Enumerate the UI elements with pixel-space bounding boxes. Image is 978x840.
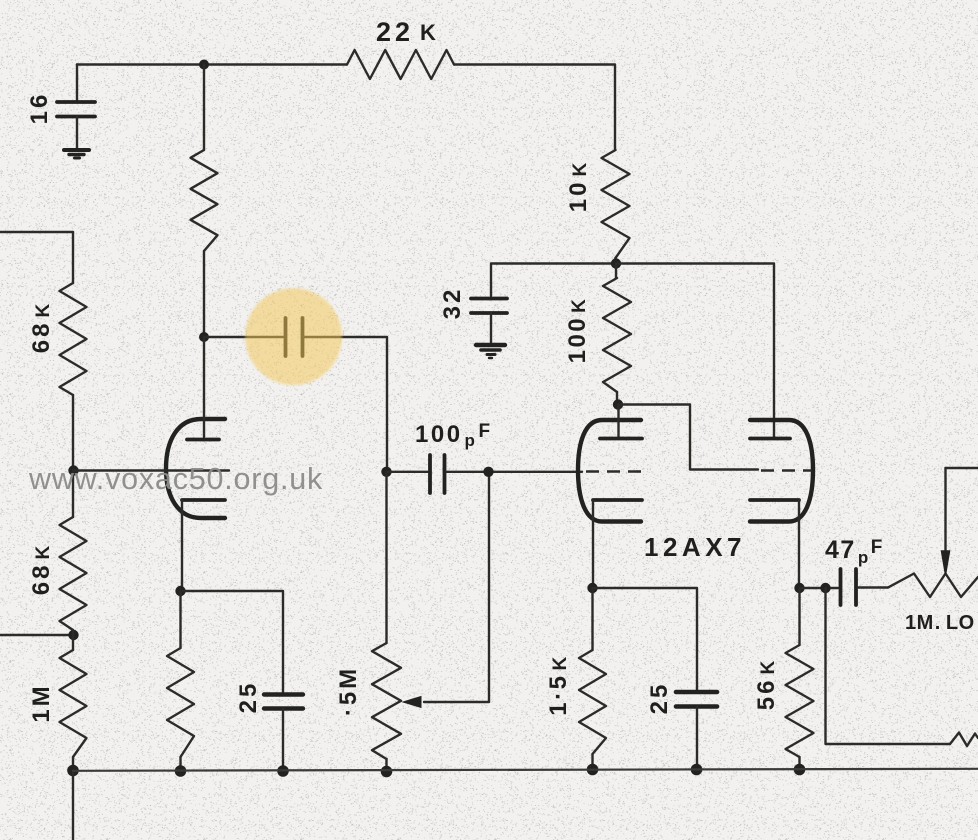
tube U1 left cathode bar (593, 498, 642, 502)
resistor R 68K upper zigzag (60, 283, 87, 395)
resistor R 68K lower lead (72, 470, 74, 517)
tube U1 left cathode lead (592, 500, 594, 588)
capacitor C 25uF left lower lead (282, 709, 284, 772)
node rail dot under .5M (381, 766, 393, 778)
svg-text:25: 25 (235, 681, 262, 714)
node rail dot under 56K (794, 764, 806, 776)
capacitor C 25uF right plates (676, 692, 717, 707)
svg-text:56K: 56K (753, 658, 780, 710)
resistor cathode-1 (unlabelled) lead (179, 591, 181, 648)
node grid-1 junction dot (68, 465, 78, 475)
resistor R 100K lead (615, 264, 617, 279)
resistor R 22K zigzag (347, 50, 454, 79)
wire 22K to HT corner (454, 65, 615, 151)
wire coupling cap to riser (304, 337, 387, 467)
node rail dot under cathode-1 (175, 765, 187, 777)
tube U1 right cathode lead (798, 500, 800, 588)
wire 100pF to V2 grid (446, 471, 582, 473)
svg-text:22K: 22K (376, 17, 440, 47)
resistor R 56K zigzag (786, 645, 814, 757)
wire HT node to right anode drop (616, 264, 774, 438)
ground for 16uF cap (64, 150, 89, 158)
tube U1 12AX7 envelope right half (750, 420, 813, 522)
resistor cathode-1 zigzag (167, 648, 194, 757)
svg-text:16: 16 (26, 92, 53, 125)
capacitor C 47pF plates (841, 569, 857, 605)
node 47pF junction dot (820, 583, 830, 593)
capacitor C 16uF plates (57, 102, 95, 117)
svg-text:32: 32 (439, 287, 466, 320)
resistor R 1.5K lead (591, 588, 593, 650)
ground for 32uF cap (476, 345, 505, 358)
potentiometer .5M wiper arrow (403, 472, 489, 708)
svg-text:www.voxac50.org.uk: www.voxac50.org.uk (28, 462, 323, 496)
capacitor C 16uF lower lead (76, 117, 78, 149)
node ground-rail-left junction dot (67, 765, 79, 777)
wire 47pF node down and right (826, 588, 951, 744)
wire 47pF to 1M pot (858, 586, 888, 588)
wire 1M wiper to right edge (946, 467, 978, 469)
wire node B to coupling cap (204, 336, 283, 338)
capacitor C 32uF plates (471, 299, 507, 314)
wire cross-couple V2 anode to right grid (619, 405, 759, 470)
capacitor C 16uF lead (76, 65, 78, 101)
wire anode-load to node B (203, 251, 205, 337)
svg-text:68K: 68K (28, 543, 55, 595)
highlight circle over coupling cap (245, 288, 342, 385)
svg-text:1·5K: 1·5K (545, 654, 572, 715)
potentiometer 1M LOG zigzag (888, 574, 978, 598)
node cathode-1 junction dot (175, 586, 185, 596)
partial zigzag at lower right edge (950, 733, 978, 747)
tube U1 right grid dashed (761, 469, 812, 472)
wire stub below ground rail (72, 771, 74, 840)
tube U1 right anode bar (750, 437, 790, 441)
resistor R 1M zigzag (60, 650, 87, 757)
resistor R 10K zigzag (602, 150, 630, 258)
capacitor coupling (highlighted) plates (286, 318, 303, 356)
potentiometer 1M wiper arrow (942, 468, 950, 575)
triode V1 cathode lead (181, 500, 183, 591)
wire top rail (77, 63, 347, 65)
wire ground rail (73, 769, 978, 771)
resistor R 100K zigzag (603, 278, 631, 392)
triode V1 anode lead (203, 337, 205, 437)
triode V1 anode bar (187, 438, 219, 442)
wire cathode-2 to bypass cap (593, 588, 698, 690)
capacitor C 25uF left plates (264, 695, 303, 709)
svg-text:10K: 10K (565, 160, 592, 212)
svg-text:100K: 100K (564, 297, 591, 364)
triode V1 grid line (74, 469, 230, 471)
node V2 anode junction dot (613, 399, 623, 409)
node B junction dot (199, 332, 209, 342)
wire 10K to HT node (614, 258, 616, 264)
tube U1 right cathode bar (750, 498, 799, 502)
wire riser to .5M pot (385, 472, 387, 643)
wire cathode-3 to 47pF (800, 587, 839, 589)
node A junction dot top rail (199, 60, 209, 70)
capacitor C 32uF lower lead (490, 313, 492, 343)
node 1M-top junction dot (68, 630, 78, 640)
wire 1.5K to rail (591, 754, 593, 770)
tube U1 left anode bar (600, 437, 642, 441)
wire .5M to rail (385, 759, 387, 772)
node rail dot under 25uF left (277, 765, 289, 777)
wire cathode-1 resistor to rail (179, 757, 181, 771)
triode V1 cathode bar (182, 498, 225, 502)
svg-text:1M.LO: 1M.LO (905, 612, 975, 634)
node riser junction dot (381, 467, 391, 477)
resistor R 1M lead (72, 630, 74, 650)
capacitor C 100pF plates (430, 455, 445, 493)
resistor R 56K lead (798, 588, 800, 645)
potentiometer .5M zigzag (372, 643, 401, 759)
node rail dot under 25uF right (691, 764, 703, 776)
svg-text:25: 25 (646, 682, 673, 715)
node cathode-2 junction dot (587, 583, 597, 593)
node rail dot under 1.5K (587, 764, 599, 776)
resistor R 1.5K zigzag (579, 650, 606, 754)
wire HT node to 32uF cap (491, 264, 614, 297)
node HT junction dot (611, 258, 621, 268)
wire riser to 100pF (387, 471, 429, 473)
wire left edge to 1M node (0, 634, 73, 636)
svg-text:68K: 68K (28, 301, 55, 353)
wire from left edge to 68K (0, 232, 73, 283)
wire 100K to V2 anode node (616, 392, 618, 404)
resistor anode-load zigzag (191, 150, 218, 251)
wire 1M to ground rail (72, 757, 74, 771)
wire cathode-1 to bypass cap (181, 591, 284, 692)
svg-text:12AX7: 12AX7 (644, 532, 746, 562)
node 100pF-grid junction dot (483, 467, 493, 477)
resistor R 68K lower zigzag (60, 517, 87, 630)
tube U1 12AX7 envelope left half (578, 420, 641, 522)
node cathode-3 junction dot (794, 583, 804, 593)
tube U1 left grid dashed (586, 470, 641, 473)
triode V1 envelope (166, 419, 225, 518)
resistor anode-load (unlabelled) lead (203, 65, 205, 151)
wire 56K to rail (798, 757, 800, 770)
wire 68K to grid node (72, 395, 74, 470)
svg-text:1M: 1M (28, 683, 55, 722)
svg-text:·5M: ·5M (335, 666, 362, 716)
tube U1 left anode lead (617, 405, 619, 438)
capacitor C 25uF right lower lead (696, 707, 698, 770)
